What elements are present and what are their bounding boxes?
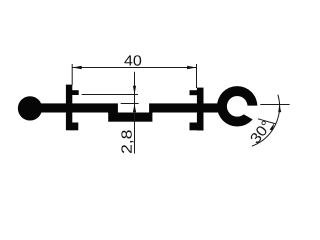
dim 40: extension line left bbox=[71, 64, 73, 85]
dim 2.8: extension line upper bbox=[82, 94, 138, 96]
dim 2.8: lower arrowhead (up) bbox=[133, 104, 136, 113]
left cross top step bbox=[71, 90, 78, 95]
dim 2.8: vertical dimension line bbox=[134, 72, 136, 154]
dim 30: value text "30 deg" (rotated) bbox=[251, 121, 267, 143]
C ring bbox=[217, 86, 257, 126]
dim 40: dimension line bbox=[72, 67, 196, 69]
profile: lower web middle segment bbox=[108, 113, 152, 122]
left cross vertical bar bbox=[66, 85, 72, 131]
right cross vertical bar bbox=[197, 88, 204, 131]
right cross bottom foot bbox=[190, 123, 198, 131]
dim 2.8: value text "2,8" (rotated) bbox=[121, 130, 133, 153]
dim 30: lower arrowhead (toward crossing) bbox=[270, 123, 275, 131]
left cross bottom foot bbox=[71, 123, 78, 131]
dim 40: extension line right bbox=[196, 64, 198, 88]
dim 30: horizontal extension line bbox=[260, 104, 289, 106]
dim 40: value text "40" bbox=[124, 55, 141, 65]
profile: upper web right segment bbox=[149, 103, 224, 112]
right cross top step bbox=[190, 90, 198, 95]
profile: upper web left segment bbox=[24, 103, 118, 112]
dim 2.8: upper arrowhead (down) bbox=[133, 86, 136, 95]
dim 30: slanted extension line bbox=[258, 119, 276, 124]
profile: left end ball bbox=[18, 96, 42, 120]
dim 40: left arrowhead bbox=[72, 66, 81, 69]
dim 2.8: extension line lower bbox=[121, 103, 139, 105]
dim 30: upper arrowhead (up along arc) bbox=[278, 104, 281, 112]
dim 30: dimension arc bbox=[252, 95, 280, 147]
wire: seam patch right z-step bbox=[149, 112, 152, 113]
wire: seam patch left z-step bbox=[108, 112, 118, 113]
C slot cutout (white wedge) bbox=[243, 106, 262, 125]
dim 40: right arrowhead bbox=[187, 66, 196, 69]
